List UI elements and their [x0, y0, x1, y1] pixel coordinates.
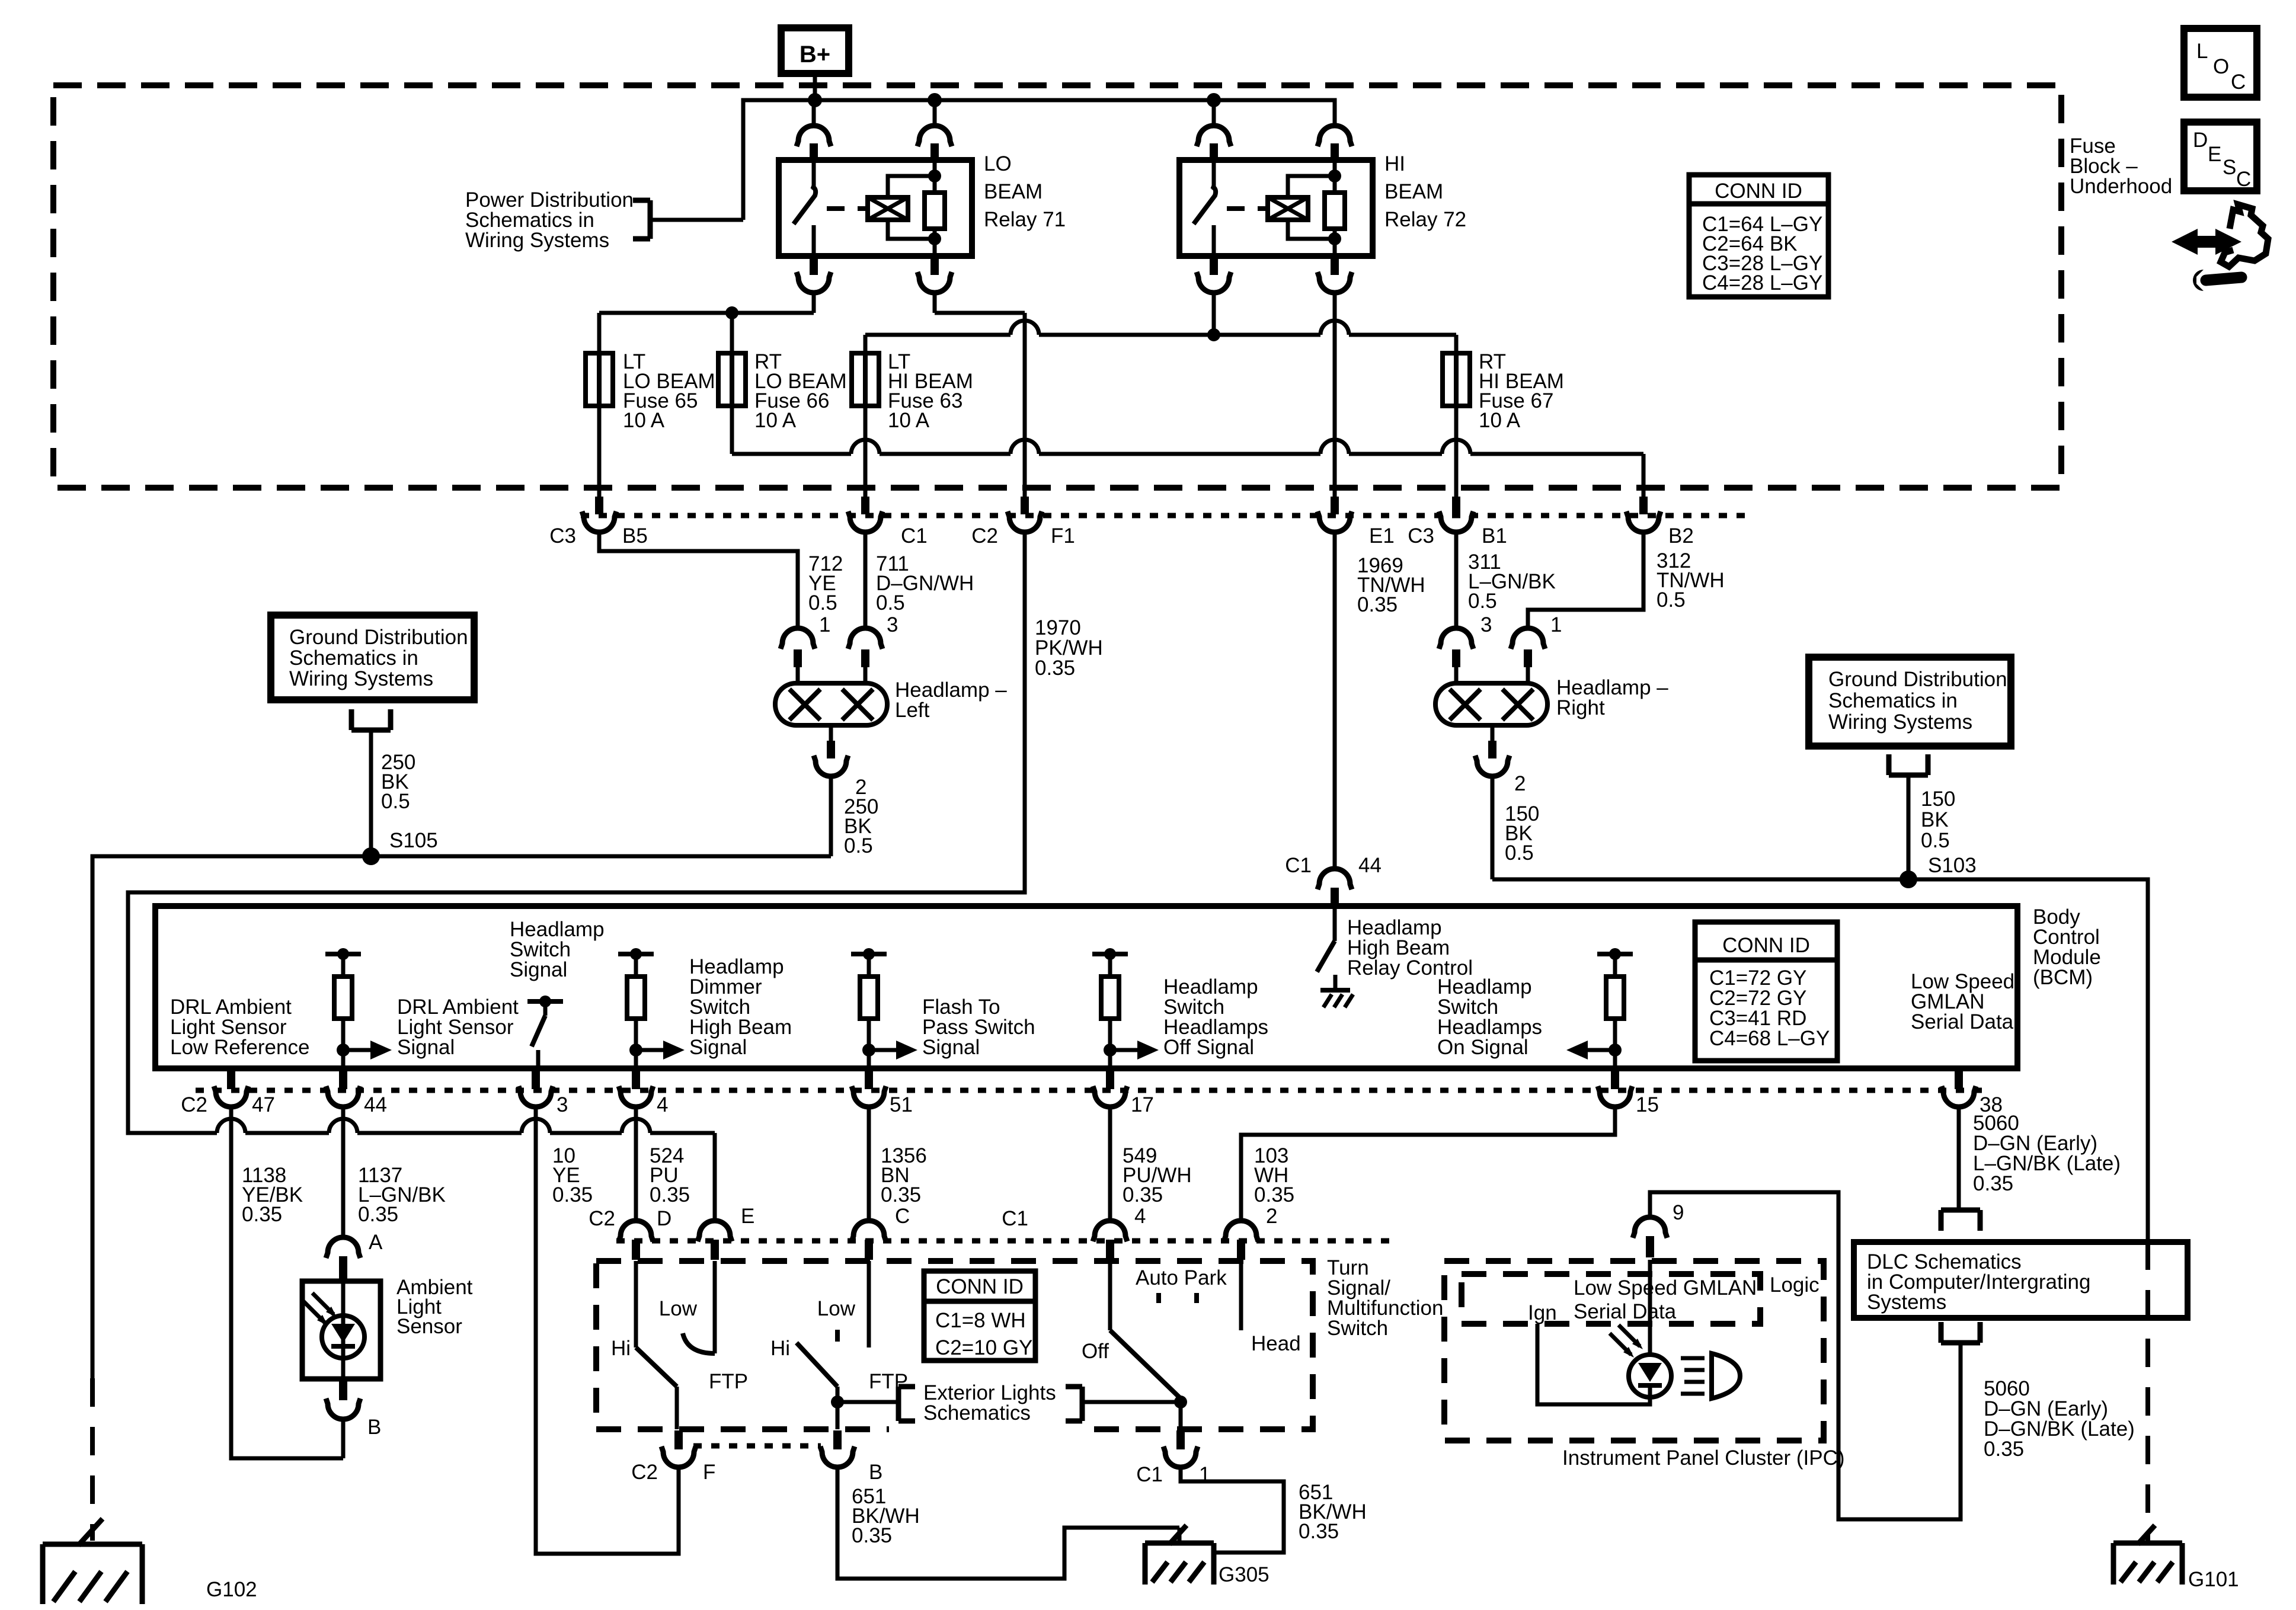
- bracket DLC bottom: [1941, 1340, 1980, 1346]
- label Auto Park: [1136, 1266, 1227, 1303]
- label 711 D-GN/WH 0.5: [876, 552, 974, 614]
- label 1137 L-GN/BK 0.35: [358, 1164, 446, 1226]
- svg-text:C3: C3: [549, 524, 576, 548]
- svg-text:1: 1: [819, 613, 830, 636]
- svg-text:C4=28 L–GY: C4=28 L–GY: [1702, 271, 1822, 295]
- svg-text:10 A: 10 A: [888, 409, 930, 432]
- headlamp switch Head contact: [1241, 1261, 1301, 1355]
- BCM connector plane dotted line: [196, 1088, 1982, 1093]
- svg-text:G101: G101: [2188, 1568, 2239, 1591]
- svg-text:Ign: Ign: [1528, 1301, 1557, 1324]
- svg-text:44: 44: [1358, 854, 1382, 877]
- bracket to power distribution: [633, 200, 743, 239]
- svg-text:2: 2: [1514, 772, 1526, 795]
- svg-text:1: 1: [1550, 613, 1562, 636]
- relay K72 HI BEAM Relay 72: [1179, 100, 1373, 293]
- reference box DLC Schematics: [1854, 1242, 2188, 1318]
- connector B2: [1626, 497, 1694, 548]
- svg-text:Logic: Logic: [1770, 1273, 1819, 1297]
- svg-text:15: 15: [1636, 1093, 1659, 1116]
- svg-text:B: B: [869, 1461, 882, 1484]
- svg-text:17: 17: [1131, 1093, 1154, 1116]
- svg-text:FTP: FTP: [709, 1370, 748, 1393]
- wire 250 BK left headlamp ground: [829, 776, 833, 856]
- svg-text:CONN ID: CONN ID: [936, 1275, 1024, 1298]
- label 1356 BN 0.35: [881, 1144, 927, 1206]
- svg-text:G102: G102: [206, 1578, 257, 1601]
- svg-text:Signal: Signal: [397, 1036, 455, 1059]
- switch connector plane dotted: [616, 1238, 1399, 1244]
- svg-text:0.5: 0.5: [1921, 829, 1950, 852]
- svg-text:HI: HI: [1384, 152, 1405, 175]
- pin B ambient light sensor: [326, 1380, 381, 1439]
- wire right ground dashed to G101: [2145, 1241, 2150, 1541]
- svg-text:4: 4: [657, 1093, 668, 1116]
- bracket exterior lights right: [1066, 1387, 1082, 1421]
- label 1969 TN/WH 0.35: [1357, 554, 1425, 616]
- svg-text:Serial Data: Serial Data: [1911, 1010, 2014, 1033]
- svg-text:C: C: [2236, 168, 2251, 191]
- svg-text:CONN ID: CONN ID: [1715, 180, 1802, 203]
- svg-text:51: 51: [890, 1093, 913, 1116]
- fuse block underhood dashed boundary: [53, 85, 2061, 488]
- svg-text:Wiring Systems: Wiring Systems: [465, 229, 609, 252]
- headlamp switch blade: [1110, 1330, 1187, 1429]
- power node B+: [781, 28, 849, 73]
- wire 10 YE pin3 to dimmer F: [536, 1107, 679, 1554]
- svg-text:C3: C3: [1408, 524, 1434, 548]
- connector B flash-to-pass pivot: [820, 1430, 882, 1484]
- svg-text:Serial Data: Serial Data: [1574, 1300, 1677, 1323]
- resistor flash to pass (pin 51): [851, 948, 887, 1068]
- label Fuse Block - Underhood: [2070, 135, 2172, 198]
- reference box Ground Distribution right: [1809, 657, 2011, 746]
- BCM pin 15 connector: [1598, 1070, 1659, 1116]
- connector E1: [1318, 497, 1395, 548]
- svg-text:L: L: [2196, 40, 2208, 63]
- headlamp switch Off contact: [1082, 1261, 1110, 1363]
- icon LOC box: [2184, 28, 2257, 97]
- connector C3/B1: [1408, 497, 1507, 548]
- svg-text:0.35: 0.35: [1299, 1520, 1339, 1543]
- pin 2 right headlamp: [1475, 725, 1526, 795]
- resistor dimmer high beam (pin 4): [618, 948, 654, 1068]
- svg-text:Hi: Hi: [611, 1337, 631, 1360]
- table CONN ID (BCM): [1695, 922, 1837, 1061]
- wire 711 D-GN/WH circuit C1 to left headlamp pin3: [864, 532, 868, 628]
- svg-text:0.35: 0.35: [358, 1203, 398, 1226]
- svg-text:Signal: Signal: [689, 1036, 747, 1059]
- wire LO relay switch output to fuses 65/66: [599, 292, 814, 353]
- label 312 TN/WH 0.5: [1657, 549, 1725, 612]
- svg-text:C2=10 GY: C2=10 GY: [935, 1336, 1032, 1359]
- svg-text:Low: Low: [817, 1297, 856, 1320]
- svg-text:B: B: [367, 1416, 381, 1439]
- BCM pin 4 connector: [619, 1070, 668, 1116]
- pin A ambient light sensor: [326, 1231, 383, 1280]
- svg-text:Relay 72: Relay 72: [1384, 208, 1466, 231]
- label 311 L-GN/BK 0.5: [1468, 550, 1556, 613]
- BCM pin 44 connector: [326, 1070, 387, 1116]
- label HI|BEAM|Relay 72: [1384, 152, 1466, 231]
- fuse F63 LT HI BEAM: [852, 353, 879, 406]
- label 651 BK/WH 0.35 (right): [1299, 1481, 1367, 1543]
- svg-text:A: A: [369, 1231, 383, 1254]
- wire 712 YE circuit B5 to left headlamp pin1: [599, 532, 798, 628]
- label Flash To Pass Switch Signal (pin 51): [922, 996, 1035, 1059]
- svg-text:0.5: 0.5: [1657, 588, 1686, 612]
- svg-text:9: 9: [1673, 1201, 1684, 1224]
- dimmer switch blade: [636, 1347, 677, 1429]
- bracket exterior lights left: [898, 1387, 915, 1421]
- arrow signal pin 15: [1584, 1048, 1615, 1052]
- label fuse 66: [754, 350, 847, 432]
- svg-text:S: S: [2223, 156, 2236, 179]
- svg-text:3: 3: [1480, 613, 1492, 636]
- svg-text:BEAM: BEAM: [1384, 180, 1443, 203]
- svg-text:Ground Distribution: Ground Distribution: [1828, 668, 2007, 691]
- label 10 YE 0.35: [552, 1144, 593, 1206]
- label Low Speed GMLAN Serial Data (pin 38): [1911, 970, 2014, 1033]
- connector C flash-to-pass: [852, 1205, 910, 1260]
- junction LO coil feed: [928, 93, 942, 107]
- connector plane dotted line: [581, 513, 1754, 518]
- svg-text:47: 47: [252, 1093, 275, 1116]
- bracket ground distribution right: [1889, 773, 1928, 778]
- resistor DRL sensor signal (pin 44): [325, 948, 361, 1068]
- ground G305: [1145, 1525, 1269, 1586]
- svg-text:0.5: 0.5: [1505, 841, 1534, 865]
- label 103 WH 0.35: [1254, 1144, 1294, 1206]
- svg-text:0.5: 0.5: [1468, 590, 1497, 613]
- icon DESC box: [2184, 122, 2257, 191]
- svg-text:Hi: Hi: [770, 1337, 790, 1360]
- connector C1/4 headlamp switch: [1002, 1205, 1146, 1260]
- wire 250 BK to S105: [369, 730, 373, 856]
- icon high beam symbol: [1681, 1353, 1740, 1398]
- connector C2/F1: [971, 497, 1075, 548]
- logic dashed box: [1462, 1274, 1760, 1324]
- arrow signal pin 17: [1110, 1048, 1141, 1052]
- svg-text:E: E: [2208, 143, 2221, 166]
- label 524 PU 0.35: [650, 1144, 690, 1206]
- dimmer switch Low contact: [659, 1261, 715, 1353]
- svg-text:Ground Distribution: Ground Distribution: [289, 626, 468, 649]
- svg-text:BK: BK: [1921, 808, 1949, 831]
- label Headlamp Dimmer Switch High Beam Signal (pin 4): [689, 955, 792, 1059]
- resistor headlamps on signal (pin 15): [1597, 948, 1633, 1068]
- label 712 YE 0.5: [808, 552, 843, 614]
- BCM pin 3 connector: [519, 1070, 568, 1116]
- bracket ground distribution left: [351, 728, 391, 733]
- svg-text:Head: Head: [1251, 1332, 1301, 1355]
- svg-text:Low Reference: Low Reference: [170, 1036, 309, 1059]
- svg-text:Off Signal: Off Signal: [1163, 1036, 1254, 1059]
- svg-text:C1: C1: [901, 524, 928, 548]
- svg-text:B1: B1: [1482, 524, 1507, 548]
- label fuse 65: [623, 350, 715, 432]
- wire left ground bus: [92, 856, 831, 1378]
- flash-to-pass Hi blade: [770, 1337, 844, 1429]
- svg-text:G305: G305: [1219, 1563, 1269, 1586]
- wire to exterior lights schematics: [837, 1400, 898, 1404]
- svg-text:Relay 71: Relay 71: [984, 208, 1066, 231]
- BCM pin 17 connector: [1093, 1070, 1154, 1116]
- lamp headlamp left: [775, 683, 887, 725]
- pin 3 right headlamp: [1439, 613, 1492, 683]
- wire B+ to bus: [813, 73, 817, 100]
- svg-text:On Signal: On Signal: [1437, 1036, 1528, 1059]
- svg-text:S103: S103: [1928, 854, 1977, 877]
- label Low Speed GMLAN Serial Data (IPC): [1574, 1276, 1757, 1323]
- svg-text:0.5: 0.5: [381, 790, 410, 813]
- wire 150 BK right headlamp ground: [1491, 776, 1495, 879]
- svg-text:Low Speed GMLAN: Low Speed GMLAN: [1574, 1276, 1757, 1299]
- reference Power Distribution Schematics: [465, 188, 634, 252]
- pin 1 right headlamp: [1511, 613, 1562, 683]
- wire exterior lights to headlamp switch pivot: [1082, 1400, 1181, 1404]
- svg-text:2: 2: [1266, 1205, 1277, 1228]
- ground G102: [43, 1519, 257, 1604]
- svg-text:B2: B2: [1668, 524, 1694, 548]
- white break for exterior lights text: [889, 1423, 1093, 1436]
- label 5060 D-GN (Early) D-GN/BK (Late) 0.35: [1984, 1377, 2135, 1461]
- label LO|BEAM|Relay 71: [984, 152, 1066, 231]
- icon wrench: [2193, 270, 2241, 291]
- svg-text:CONN ID: CONN ID: [1722, 934, 1810, 957]
- fuse F65 LT LO BEAM: [586, 353, 613, 406]
- sensor ambient light sensor: [302, 1281, 380, 1379]
- svg-text:C1: C1: [1285, 854, 1312, 877]
- wire 5060 DLC to IPC pin 9: [1650, 1192, 1961, 1519]
- svg-text:Wiring Systems: Wiring Systems: [289, 667, 433, 690]
- svg-text:E1: E1: [1369, 524, 1395, 548]
- svg-text:Signal: Signal: [510, 958, 567, 981]
- connector C3/B5: [549, 497, 648, 548]
- flash-to-pass Low stub: [817, 1297, 856, 1342]
- resistor headlamps off signal (pin 17): [1092, 948, 1128, 1068]
- label 549 PU/WH 0.35: [1123, 1144, 1192, 1206]
- svg-text:C1: C1: [1136, 1463, 1163, 1486]
- svg-text:FTP: FTP: [869, 1370, 908, 1393]
- svg-text:10 A: 10 A: [754, 409, 797, 432]
- svg-text:Signal: Signal: [922, 1036, 980, 1059]
- BCM pin 38 connector: [1942, 1070, 2003, 1116]
- wire 1138 YE/BK pin47 to sensor loop: [231, 1107, 343, 1458]
- connector C1 44 relay control: [1285, 854, 1382, 908]
- svg-text:LO: LO: [984, 152, 1012, 175]
- wire HI relay coil to E1: [1333, 292, 1337, 497]
- lamp headlamp right: [1435, 683, 1547, 725]
- node S105: [362, 829, 438, 865]
- svg-text:C2: C2: [971, 524, 998, 548]
- label 150 BK 0.5 (right lamp): [1505, 802, 1539, 865]
- connector C1/1 headlamp switch pivot: [1136, 1430, 1210, 1486]
- wire 311 L-GN/BK circuit B1 to right headlamp pin3: [1454, 532, 1459, 628]
- wire 5060 pin38 to DLC: [1957, 1107, 1961, 1210]
- pin 2 left headlamp: [814, 725, 866, 799]
- wire 524 PU pin4 to dimmer D: [634, 1107, 638, 1219]
- label Turn Signal/Multifunction Switch: [1327, 1256, 1443, 1340]
- relay K71 LO BEAM Relay 71: [779, 100, 972, 293]
- connector E dimmer: [698, 1205, 754, 1260]
- svg-text:150: 150: [1921, 788, 1955, 811]
- icon double arrow: [2172, 229, 2241, 255]
- svg-text:3: 3: [557, 1093, 568, 1116]
- svg-text:Schematics: Schematics: [923, 1401, 1031, 1425]
- svg-text:0.35: 0.35: [1123, 1183, 1163, 1206]
- svg-text:B+: B+: [800, 41, 830, 68]
- svg-text:BEAM: BEAM: [984, 180, 1043, 203]
- svg-text:(BCM): (BCM): [2033, 966, 2093, 989]
- svg-text:D: D: [2193, 129, 2208, 152]
- svg-text:B5: B5: [622, 524, 648, 548]
- svg-text:E: E: [741, 1205, 754, 1228]
- label 5060 D-GN (Early) L-GN/BK (Late) 0.35: [1973, 1112, 2121, 1195]
- svg-text:10 A: 10 A: [623, 409, 665, 432]
- multifunction switch dashed box: [596, 1261, 1313, 1429]
- svg-text:F1: F1: [1051, 524, 1075, 548]
- connector 2 headlamp switch: [1224, 1205, 1277, 1260]
- svg-text:0.35: 0.35: [1973, 1172, 2013, 1195]
- svg-text:Schematics in: Schematics in: [289, 646, 418, 670]
- svg-text:10 A: 10 A: [1479, 409, 1521, 432]
- bracket DLC top: [1941, 1208, 1980, 1213]
- svg-text:Auto Park: Auto Park: [1136, 1266, 1227, 1289]
- label 651 BK/WH 0.35 (left): [852, 1485, 920, 1547]
- svg-text:Off: Off: [1082, 1340, 1109, 1363]
- reference box Ground Distribution left: [271, 615, 474, 700]
- wire feed bus: [743, 100, 1335, 220]
- wire fuse 67 to B1: [1454, 406, 1459, 497]
- switch headlamp switch signal (pin 3): [527, 996, 563, 1068]
- svg-text:0.5: 0.5: [876, 591, 905, 614]
- wire sensor B return: [341, 1419, 346, 1458]
- svg-text:0.35: 0.35: [1254, 1183, 1294, 1206]
- junction HI switch feed: [1207, 93, 1221, 107]
- label 150 BK 0.5 (S103 branch): [1921, 788, 1955, 852]
- wire 103 WH pin15 to switch pin2: [1241, 1107, 1615, 1219]
- wire right ground bus: [1492, 879, 2148, 1241]
- label Headlamp Switch Signal (pin 3): [510, 918, 605, 981]
- svg-text:0.35: 0.35: [242, 1203, 282, 1226]
- indicator high beam LED: [1610, 1260, 1671, 1397]
- table CONN ID (switch): [924, 1271, 1035, 1361]
- table CONN ID (fuse block): [1689, 175, 1828, 297]
- svg-text:F: F: [703, 1461, 715, 1484]
- label 1970 PK/WH 0.35: [1035, 616, 1103, 680]
- wire 1970 PK/WH F1 to dimmer switch E: [128, 532, 1025, 1221]
- svg-text:C: C: [2231, 71, 2246, 94]
- pin 9 IPC: [1633, 1201, 1684, 1257]
- label Headlamp High Beam Relay Control: [1347, 916, 1473, 980]
- wire fuse 66 to B2: [732, 406, 1643, 497]
- label 250 BK 0.5 (S105 branch): [381, 751, 415, 813]
- wire Ign to LED: [1537, 1324, 1650, 1404]
- svg-text:Left: Left: [895, 699, 930, 722]
- wire 1356 BN pin51 to switch C: [867, 1107, 871, 1219]
- svg-text:Instrument Panel Cluster (IPC): Instrument Panel Cluster (IPC): [1562, 1446, 1845, 1470]
- label Headlamp Switch Headlamps Off Signal (pin 17): [1163, 975, 1268, 1059]
- label DRL Ambient Light Sensor Signal (pin 44): [397, 996, 519, 1059]
- svg-text:3: 3: [887, 613, 898, 636]
- pin 3 left headlamp: [848, 613, 898, 683]
- label Exterior Lights Schematics: [923, 1381, 1056, 1425]
- wire 651 BK/WH from B to G305: [837, 1467, 1163, 1579]
- label DRL Ambient Light Sensor Low Reference (pin 47): [170, 996, 309, 1059]
- svg-text:Schematics in: Schematics in: [1828, 689, 1958, 712]
- svg-text:D: D: [657, 1207, 671, 1230]
- svg-text:C: C: [895, 1205, 910, 1228]
- wire 1969 TN/WH E1 to BCM pin C1-44: [1333, 532, 1337, 869]
- connector C2/D dimmer: [589, 1207, 671, 1260]
- flash-to-pass FTP contact (C): [869, 1261, 908, 1393]
- module Instrument Panel Cluster dashed box: [1444, 1261, 1824, 1441]
- label 1138 YE/BK 0.35: [242, 1164, 303, 1226]
- label Headlamp Switch Headlamps On Signal (pin 15): [1437, 975, 1542, 1059]
- svg-text:0.35: 0.35: [1035, 657, 1075, 680]
- svg-text:Underhood: Underhood: [2070, 175, 2172, 198]
- wire left ground dashed to G102: [90, 1378, 95, 1541]
- wire fuse 65 to C3/B5: [597, 406, 602, 497]
- label fuse 63: [888, 350, 973, 432]
- label Headlamp - Left: [895, 678, 1007, 722]
- label 250 BK 0.5 (left lamp): [844, 795, 878, 857]
- svg-text:C2: C2: [631, 1461, 658, 1484]
- svg-text:Switch: Switch: [1327, 1317, 1388, 1340]
- arrow signal pin 44: [343, 1048, 374, 1052]
- svg-text:O: O: [2213, 55, 2229, 78]
- wire HI relay switch output: [1207, 292, 1220, 341]
- node S103: [1900, 854, 1977, 888]
- icon pointer outline: [2221, 204, 2268, 267]
- svg-text:Low: Low: [659, 1297, 698, 1320]
- svg-text:Systems: Systems: [1867, 1291, 1946, 1314]
- fuse F66 RT LO BEAM: [718, 353, 746, 406]
- wire HI beam feed to fuses 63/67: [865, 321, 1456, 353]
- svg-text:Wiring Systems: Wiring Systems: [1828, 710, 1972, 734]
- wire 150 BK to S103: [1907, 775, 1911, 879]
- wire fuse 63 to C1: [864, 406, 868, 497]
- switch high beam relay control driver: [1317, 908, 1353, 1007]
- svg-text:4: 4: [1134, 1205, 1146, 1228]
- svg-text:0.35: 0.35: [852, 1524, 892, 1547]
- module Body Control Module box: [155, 906, 2017, 1068]
- svg-text:Sensor: Sensor: [396, 1315, 462, 1338]
- svg-text:0.35: 0.35: [552, 1183, 593, 1206]
- wire 312 TN/WH circuit B2 to right headlamp pin1: [1528, 532, 1643, 628]
- svg-text:S105: S105: [389, 829, 438, 852]
- wire 1137 L-GN/BK pin44 to sensor A: [341, 1107, 346, 1236]
- connector C2/F dimmer pivot: [631, 1430, 715, 1484]
- label Ambient Light Sensor: [396, 1276, 473, 1338]
- svg-text:C2: C2: [181, 1093, 207, 1116]
- svg-text:C1: C1: [1002, 1207, 1028, 1230]
- connector C1 (fuse63): [848, 497, 928, 548]
- svg-text:Right: Right: [1556, 696, 1605, 719]
- svg-text:C1=8 WH: C1=8 WH: [935, 1309, 1026, 1332]
- wire 549 PU/WH pin17 to switch C1-4: [1108, 1107, 1112, 1219]
- svg-text:C2: C2: [589, 1207, 615, 1230]
- pin 1 left headlamp: [781, 613, 830, 683]
- svg-text:0.35: 0.35: [1357, 593, 1398, 616]
- svg-text:44: 44: [364, 1093, 387, 1116]
- BCM pin 51 connector: [852, 1070, 913, 1116]
- dimmer switch Hi contact: [611, 1261, 636, 1360]
- svg-text:0.35: 0.35: [881, 1183, 921, 1206]
- svg-text:0.5: 0.5: [844, 834, 873, 857]
- ground G101: [2113, 1525, 2239, 1591]
